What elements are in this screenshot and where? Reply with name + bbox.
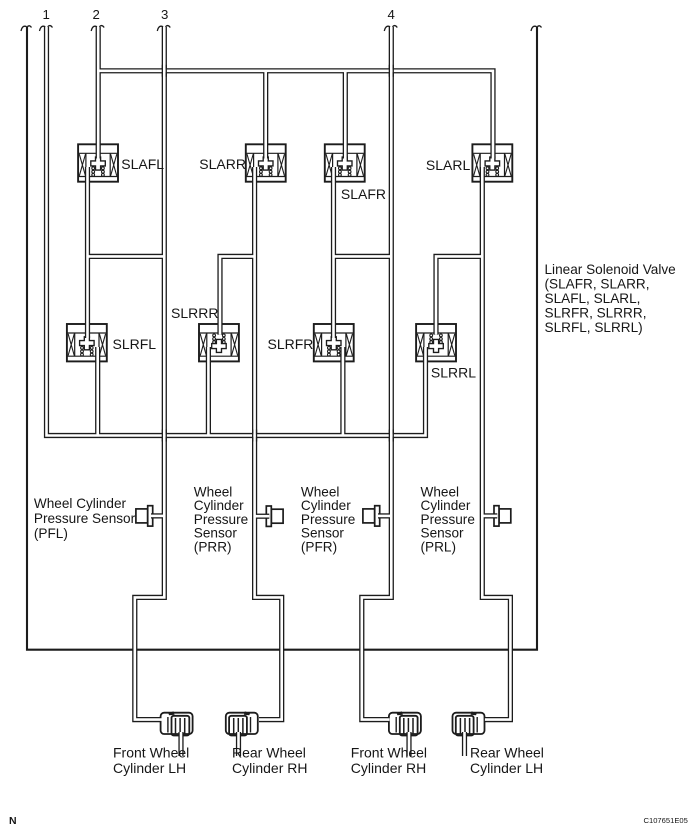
wire SLRFL outlet to return line xyxy=(95,347,100,436)
svg-text:Rear Wheel: Rear Wheel xyxy=(232,745,306,761)
svg-text:Cylinder: Cylinder xyxy=(301,498,351,513)
label wheel cylinder pressure sensor PRR xyxy=(194,484,248,554)
solenoid valve SLARR xyxy=(246,144,286,181)
svg-text:4: 4 xyxy=(388,7,395,22)
wire supply branch to SLAFR inlet xyxy=(343,71,348,159)
svg-text:Cylinder: Cylinder xyxy=(421,498,471,513)
svg-text:Front Wheel: Front Wheel xyxy=(113,745,189,761)
svg-text:(PRR): (PRR) xyxy=(194,540,232,555)
solenoid valve SLRFL xyxy=(67,324,107,361)
svg-text:SLRRR: SLRRR xyxy=(171,305,218,321)
svg-text:C107651E05: C107651E05 xyxy=(644,816,688,825)
svg-text:Cylinder LH: Cylinder LH xyxy=(113,760,186,776)
pipe outlines (black layer) xyxy=(47,27,511,756)
wire crossing 2 at (391.3,70.8) xyxy=(389,65,393,77)
wire SLARL outlet rear-left circuit to rear wheel cylinder LH xyxy=(482,167,510,720)
svg-text:2: 2 xyxy=(93,7,100,22)
svg-text:N: N xyxy=(9,815,17,827)
wire rear LH cylinder stub xyxy=(462,732,467,756)
wire crossing 5 at (391.3,435.5) xyxy=(389,430,393,442)
svg-text:(PFR): (PFR) xyxy=(301,540,337,555)
left housing line break mark xyxy=(21,26,27,31)
wire node FR branch xyxy=(334,254,392,259)
solenoid valve SLARL xyxy=(472,144,512,181)
svg-text:Cylinder: Cylinder xyxy=(194,498,244,513)
svg-text:Sensor: Sensor xyxy=(301,526,345,541)
wheel cylinder rear LH xyxy=(453,711,485,735)
svg-text:SLAFL, SLARL,: SLAFL, SLARL, xyxy=(545,291,641,306)
svg-text:(PRL): (PRL) xyxy=(421,540,457,555)
svg-text:Pressure: Pressure xyxy=(194,512,248,527)
svg-text:(PFL): (PFL) xyxy=(34,526,68,541)
solenoid valve SLRRL xyxy=(416,324,456,361)
wire node FL branch xyxy=(88,254,165,259)
svg-text:Pressure: Pressure xyxy=(421,512,475,527)
svg-text:Wheel: Wheel xyxy=(421,484,460,499)
port 2 break mark xyxy=(91,26,97,31)
solenoid valve SLRFR xyxy=(314,324,354,361)
wire SLAFR outlet to SLRFR inlet xyxy=(331,167,336,338)
svg-text:Sensor: Sensor xyxy=(421,526,465,541)
actuator housing box xyxy=(27,27,537,650)
svg-text:SLARL: SLARL xyxy=(426,157,471,173)
pressure sensor PRL xyxy=(494,506,511,526)
pipe cores (white layer) xyxy=(47,27,511,756)
svg-text:Wheel: Wheel xyxy=(194,484,233,499)
svg-text:Wheel Cylinder: Wheel Cylinder xyxy=(34,496,127,511)
svg-text:Sensor: Sensor xyxy=(194,526,238,541)
svg-text:Cylinder LH: Cylinder LH xyxy=(470,760,543,776)
wire PRL sensor stub xyxy=(482,513,497,518)
svg-text:3: 3 xyxy=(161,7,168,22)
wire front RH cylinder stub xyxy=(406,732,411,756)
svg-text:SLAFR: SLAFR xyxy=(341,186,386,202)
pressure sensor PFL xyxy=(136,506,153,526)
svg-text:SLRFR: SLRFR xyxy=(268,336,314,352)
svg-text:Rear Wheel: Rear Wheel xyxy=(470,745,544,761)
port 3 break mark xyxy=(157,26,163,31)
wire SLRRR outlet to return line xyxy=(206,347,211,436)
wire rear RH cylinder stub xyxy=(236,732,241,756)
wire crossing 3 at (164.3,435.5) xyxy=(162,430,166,442)
pressure sensor PFR xyxy=(363,506,380,526)
svg-text:SLRFL, SLRRL): SLRFL, SLRRL) xyxy=(545,320,643,335)
label wheel cylinder pressure sensor PFR xyxy=(301,484,355,554)
wire supply branch to SLARR inlet xyxy=(263,71,268,159)
svg-text:SLAFL: SLAFL xyxy=(121,156,164,172)
wire port 2 to SLAFL inlet xyxy=(96,27,101,159)
wire crossing 1 at (164.3,70.8) xyxy=(162,65,166,77)
wire port 1 return line to SLRRL outlet xyxy=(47,27,426,436)
svg-text:SLARR: SLARR xyxy=(199,156,246,172)
svg-text:SLRFR, SLRRR,: SLRFR, SLRRR, xyxy=(545,306,647,321)
wire PFR sensor stub xyxy=(378,513,391,518)
wheel cylinder front LH xyxy=(161,711,193,735)
label linear solenoid valve block xyxy=(545,262,676,335)
svg-text:Front Wheel: Front Wheel xyxy=(351,745,427,761)
svg-text:SLRRL: SLRRL xyxy=(431,365,476,381)
crossing rails (vertical pipes pass over) xyxy=(162,65,393,442)
solenoid valve SLAFR xyxy=(325,144,365,181)
wire node RL branch to SLRRL inlet xyxy=(436,256,482,334)
wire crossing 4 at (254.6,435.5) xyxy=(253,430,257,442)
pressure sensor PRR xyxy=(266,506,283,526)
wire port 3 front-left circuit to front wheel cylinder LH xyxy=(135,27,165,720)
port 1 break mark xyxy=(40,26,46,31)
solenoid valve SLRRR xyxy=(199,324,239,361)
right housing line break mark xyxy=(531,26,537,31)
wire supply header to SLARL inlet xyxy=(98,71,493,159)
svg-text:Pressure Sensor: Pressure Sensor xyxy=(34,511,136,526)
svg-text:Pressure: Pressure xyxy=(301,512,355,527)
svg-text:(SLAFR, SLARR,: (SLAFR, SLARR, xyxy=(545,277,650,292)
wire PRR sensor stub xyxy=(255,514,270,519)
svg-text:1: 1 xyxy=(43,7,50,22)
wire SLRFR outlet to return line xyxy=(340,347,345,436)
wire SLARR outlet rear-right circuit to rear wheel cylinder RH xyxy=(255,167,282,720)
wheel cylinder rear RH xyxy=(226,711,258,735)
wire SLAFL outlet to SLRFL inlet xyxy=(85,167,90,338)
solenoid valve SLAFL xyxy=(78,144,118,181)
svg-text:Cylinder RH: Cylinder RH xyxy=(351,760,426,776)
wire PFL sensor stub xyxy=(151,513,164,518)
wire port 4 front-right circuit to front wheel cylinder RH xyxy=(362,27,392,720)
svg-text:SLRFL: SLRFL xyxy=(113,336,157,352)
wheel cylinder front RH xyxy=(389,711,421,735)
svg-text:Linear Solenoid Valve: Linear Solenoid Valve xyxy=(545,262,676,277)
wire front LH cylinder stub xyxy=(178,732,183,756)
label wheel cylinder pressure sensor PFL xyxy=(34,496,136,541)
wire node RR branch to SLRRR inlet xyxy=(220,256,255,334)
svg-text:Wheel: Wheel xyxy=(301,484,340,499)
port 4 break mark xyxy=(384,26,390,31)
label wheel cylinder pressure sensor PRL xyxy=(421,484,475,554)
svg-text:Cylinder RH: Cylinder RH xyxy=(232,760,307,776)
